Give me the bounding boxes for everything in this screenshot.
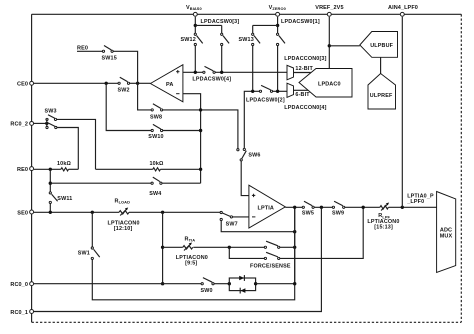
- wire RC0_2 stub: [34, 122, 47, 124]
- switch col2 (unnamed): [221, 25, 230, 72]
- node bypass tee: [293, 230, 296, 233]
- svg-text:SW12: SW12: [181, 37, 196, 43]
- chip boundary top bus: [32, 13, 462, 15]
- node 6bit SW13: [251, 90, 254, 93]
- wire RTIA row to FORCE switch: [193, 246, 264, 248]
- node col2 bottom: [220, 71, 223, 74]
- svg-text:[12:10]: [12:10]: [114, 226, 133, 232]
- wire PA- feedback: [183, 94, 201, 184]
- node fb 10k: [199, 168, 202, 171]
- switch SENSE: [250, 252, 291, 269]
- svg-text:PA: PA: [166, 82, 173, 88]
- switch SW8: [150, 104, 163, 121]
- svg-text:ULPREF: ULPREF: [370, 93, 393, 99]
- svg-text:SW2: SW2: [118, 88, 130, 94]
- svg-text:MUX: MUX: [440, 233, 453, 239]
- resistor 10k #2: [150, 161, 165, 171]
- svg-text:SW3: SW3: [45, 108, 57, 114]
- wire CE0 row: [34, 82, 118, 84]
- switch SW2: [118, 77, 130, 93]
- svg-text:SW15: SW15: [102, 56, 117, 62]
- wire VREF to ULPBUF: [329, 45, 360, 47]
- wire SW10 to feedback col: [163, 130, 201, 132]
- switch SW13: [239, 25, 261, 45]
- switch SW3 upper: [45, 108, 57, 120]
- wire SW7 bypass to LPTIA out: [221, 221, 295, 232]
- resistor RLPF variable: [367, 203, 399, 231]
- svg-text:CE0: CE0: [17, 82, 28, 88]
- svg-text:RTIA: RTIA: [185, 237, 196, 243]
- node VZERO0 junction: [276, 24, 279, 27]
- wire SW13 down to 6bit row: [252, 46, 254, 92]
- terminal VBIAS0: [186, 5, 202, 16]
- chip boundary right dashed: [460, 14, 462, 322]
- wire lower switch to RE0 row: [57, 128, 78, 170]
- node FORCE branch: [228, 246, 231, 249]
- wire VREF column: [328, 17, 330, 69]
- switch SW0: [201, 278, 215, 294]
- terminal VZERO0: [269, 5, 286, 16]
- svg-text:FORCE/SENSE: FORCE/SENSE: [250, 264, 291, 270]
- op-amp LPTIA: [249, 185, 285, 228]
- svg-text:12-BIT: 12-BIT: [295, 66, 313, 72]
- wire SW12 to node: [194, 46, 196, 73]
- node 6bit VZERO: [276, 90, 279, 93]
- terminal RC0_1: [10, 310, 33, 316]
- switch FORCE: [264, 241, 280, 248]
- node fb SW8: [199, 108, 202, 111]
- block LPDAC0: [299, 69, 352, 98]
- svg-text:LPDACSW0[2]: LPDACSW0[2]: [246, 98, 285, 104]
- wire 6bit row: [253, 90, 260, 92]
- switch SW6: [237, 148, 261, 161]
- wire PA output to CE0 node: [138, 82, 151, 84]
- svg-text:ULPBUF: ULPBUF: [370, 43, 393, 49]
- svg-text:[15:13]: [15:13]: [374, 225, 393, 231]
- wire SW8 row to SW6: [163, 110, 238, 149]
- svg-text:AIN4_LPF0: AIN4_LPF0: [388, 5, 418, 11]
- wire SENSE to SW9 node: [280, 207, 363, 258]
- chip boundary left bus: [31, 14, 33, 322]
- switch LPDACSW0[4]: [192, 66, 231, 82]
- node PA out: [136, 82, 139, 85]
- svg-text:RC0_2: RC0_2: [10, 122, 28, 128]
- wire SW11 column: [49, 169, 51, 192]
- wire RLPF to mux: [389, 206, 437, 208]
- switch LPDACSW0[2]: [246, 85, 285, 103]
- wire AIN4 column: [401, 17, 403, 208]
- switch SW15: [102, 46, 117, 62]
- node SW5/SW9: [320, 206, 323, 209]
- block ULPREF: [368, 74, 396, 110]
- node VBIAS0 junction: [194, 24, 197, 27]
- wire VBIAS0 column: [194, 17, 196, 35]
- wire LPDACSW0[3] row: [195, 24, 221, 26]
- switch SW11: [49, 192, 72, 204]
- svg-text:VZERO0: VZERO0: [269, 5, 286, 11]
- svg-text:SW11: SW11: [57, 196, 72, 202]
- wire VZERO0 column: [277, 17, 279, 35]
- svg-text:SW6: SW6: [248, 152, 260, 158]
- svg-text:LPDACCON0[4]: LPDACCON0[4]: [284, 105, 326, 111]
- node SE0 SW11: [49, 211, 52, 214]
- switch lower (unnamed): [46, 123, 57, 129]
- switch SW7: [220, 211, 238, 227]
- wire SW15 to PA out node: [113, 51, 137, 83]
- net LPTIA0_P_LPF0 label: [406, 194, 434, 205]
- wire SW6 right feed from 6bit row: [244, 91, 252, 148]
- node diode right: [254, 282, 257, 285]
- terminal AIN4_LPF0: [388, 5, 418, 16]
- svg-text:RLOAD: RLOAD: [115, 198, 131, 204]
- svg-text:SW13: SW13: [239, 37, 254, 43]
- wire RE0 row: [34, 168, 61, 170]
- svg-text:LPDACSW0[4]: LPDACSW0[4]: [192, 76, 231, 82]
- wire RC0_0 row: [34, 283, 201, 285]
- node VREF ULPBUF: [328, 44, 331, 47]
- svg-text:SW0: SW0: [201, 288, 213, 294]
- wire ULPBUF to ULPREF: [380, 57, 382, 73]
- wire LPDACSW0[1] row: [253, 24, 278, 26]
- svg-text:SE0: SE0: [17, 210, 28, 216]
- svg-text:RC0_1: RC0_1: [10, 310, 28, 316]
- svg-text:6-BIT: 6-BIT: [295, 92, 310, 98]
- wire SENSE row: [229, 247, 264, 258]
- svg-text:SW7: SW7: [226, 221, 238, 227]
- wire SW5/SW9 node down to RC0_1: [34, 207, 321, 311]
- node AIN4 junction: [401, 206, 404, 209]
- wire SE0 row: [34, 211, 119, 213]
- wire SW7 to LPTIA-: [233, 216, 249, 218]
- resistor RLOAD variable: [108, 198, 140, 232]
- svg-text:[9:5]: [9:5]: [185, 261, 197, 267]
- node RTIA row left: [161, 246, 164, 249]
- svg-text:LPDACSW0[1]: LPDACSW0[1]: [281, 19, 320, 25]
- switch SW5: [302, 201, 314, 216]
- svg-text:SW5: SW5: [302, 211, 314, 217]
- node CE0 branch: [105, 82, 108, 85]
- svg-text:LPDACSW0[3]: LPDACSW0[3]: [201, 19, 240, 25]
- svg-text:LPTIA: LPTIA: [258, 205, 274, 211]
- svg-text:RE0: RE0: [77, 45, 88, 51]
- wire PA+ input row (12bit DAC row): [183, 71, 203, 73]
- svg-text:SW9: SW9: [332, 211, 344, 217]
- wire LPTIA out vertical: [294, 207, 296, 283]
- node RC0_0 out: [293, 282, 296, 285]
- switch SW9: [332, 201, 345, 216]
- diode pair loop: [229, 275, 255, 293]
- switch SW1: [78, 212, 100, 259]
- wire CE0 branch down to SW10 row: [106, 83, 151, 130]
- svg-text:10kΩ: 10kΩ: [57, 161, 72, 167]
- wire SW6 common to LPTIA+: [241, 161, 249, 196]
- buffer ULPBUF: [360, 32, 398, 58]
- svg-text:_LPF0: _LPF0: [406, 199, 424, 205]
- wire SW1 to LPTIA out bottom route: [92, 207, 294, 299]
- terminal VREF_2V5: [315, 5, 343, 16]
- terminal RC0_0: [10, 282, 33, 288]
- wire LPTIA out row: [285, 206, 302, 208]
- node LPTIA out: [293, 206, 296, 209]
- svg-text:SW1: SW1: [78, 250, 90, 256]
- svg-text:RC0_0: RC0_0: [10, 282, 28, 288]
- resistor RTIA variable: [163, 237, 208, 267]
- svg-text:RE0: RE0: [17, 167, 28, 173]
- chip boundary bottom dashed: [32, 321, 462, 323]
- node SE0 SW1: [91, 211, 94, 214]
- wire SW4 row: [50, 182, 151, 184]
- op-amp PA: [150, 65, 183, 102]
- svg-text:SW10: SW10: [148, 134, 163, 140]
- node SW4 branch: [49, 182, 52, 185]
- node RC0_0 col: [161, 282, 164, 285]
- switch col4 (unnamed): [277, 33, 286, 91]
- buffer 6bit: [287, 83, 310, 98]
- svg-text:VREF_2V5: VREF_2V5: [315, 5, 343, 11]
- buffer 12bit: [287, 65, 313, 80]
- svg-text:SW8: SW8: [150, 115, 162, 121]
- switch SW4: [149, 177, 162, 197]
- wire SW3 upper to 10k2 col: [57, 119, 96, 169]
- node RTIA out: [293, 246, 296, 249]
- block ADC MUX: [437, 192, 456, 273]
- svg-text:10kΩ: 10kΩ: [150, 161, 165, 167]
- node fb SW10: [199, 129, 202, 132]
- switch SW10: [148, 124, 163, 140]
- svg-text:VBIAS0: VBIAS0: [186, 5, 202, 11]
- node RE0 branch: [49, 168, 52, 171]
- node diode left: [228, 282, 231, 285]
- node PA+ col1: [194, 71, 197, 74]
- svg-text:SW4: SW4: [149, 191, 161, 197]
- node SE0 RTIA col: [161, 211, 164, 214]
- svg-text:LPDAC0: LPDAC0: [318, 81, 341, 87]
- wire RTIA column: [162, 212, 164, 283]
- terminal RE0: [17, 167, 34, 173]
- node RLPF left: [362, 206, 365, 209]
- svg-text:LPDACCON0[3]: LPDACCON0[3]: [284, 56, 326, 62]
- terminal CE0: [17, 81, 34, 87]
- node RC0_2: [45, 122, 48, 125]
- terminal SE0: [17, 210, 33, 216]
- terminal RC0_2: [10, 121, 33, 127]
- wire PAout down to SW8: [138, 83, 151, 110]
- resistor 10k #1: [57, 161, 72, 171]
- switch SW12: [181, 33, 203, 45]
- net RE0 stub label: [77, 45, 102, 51]
